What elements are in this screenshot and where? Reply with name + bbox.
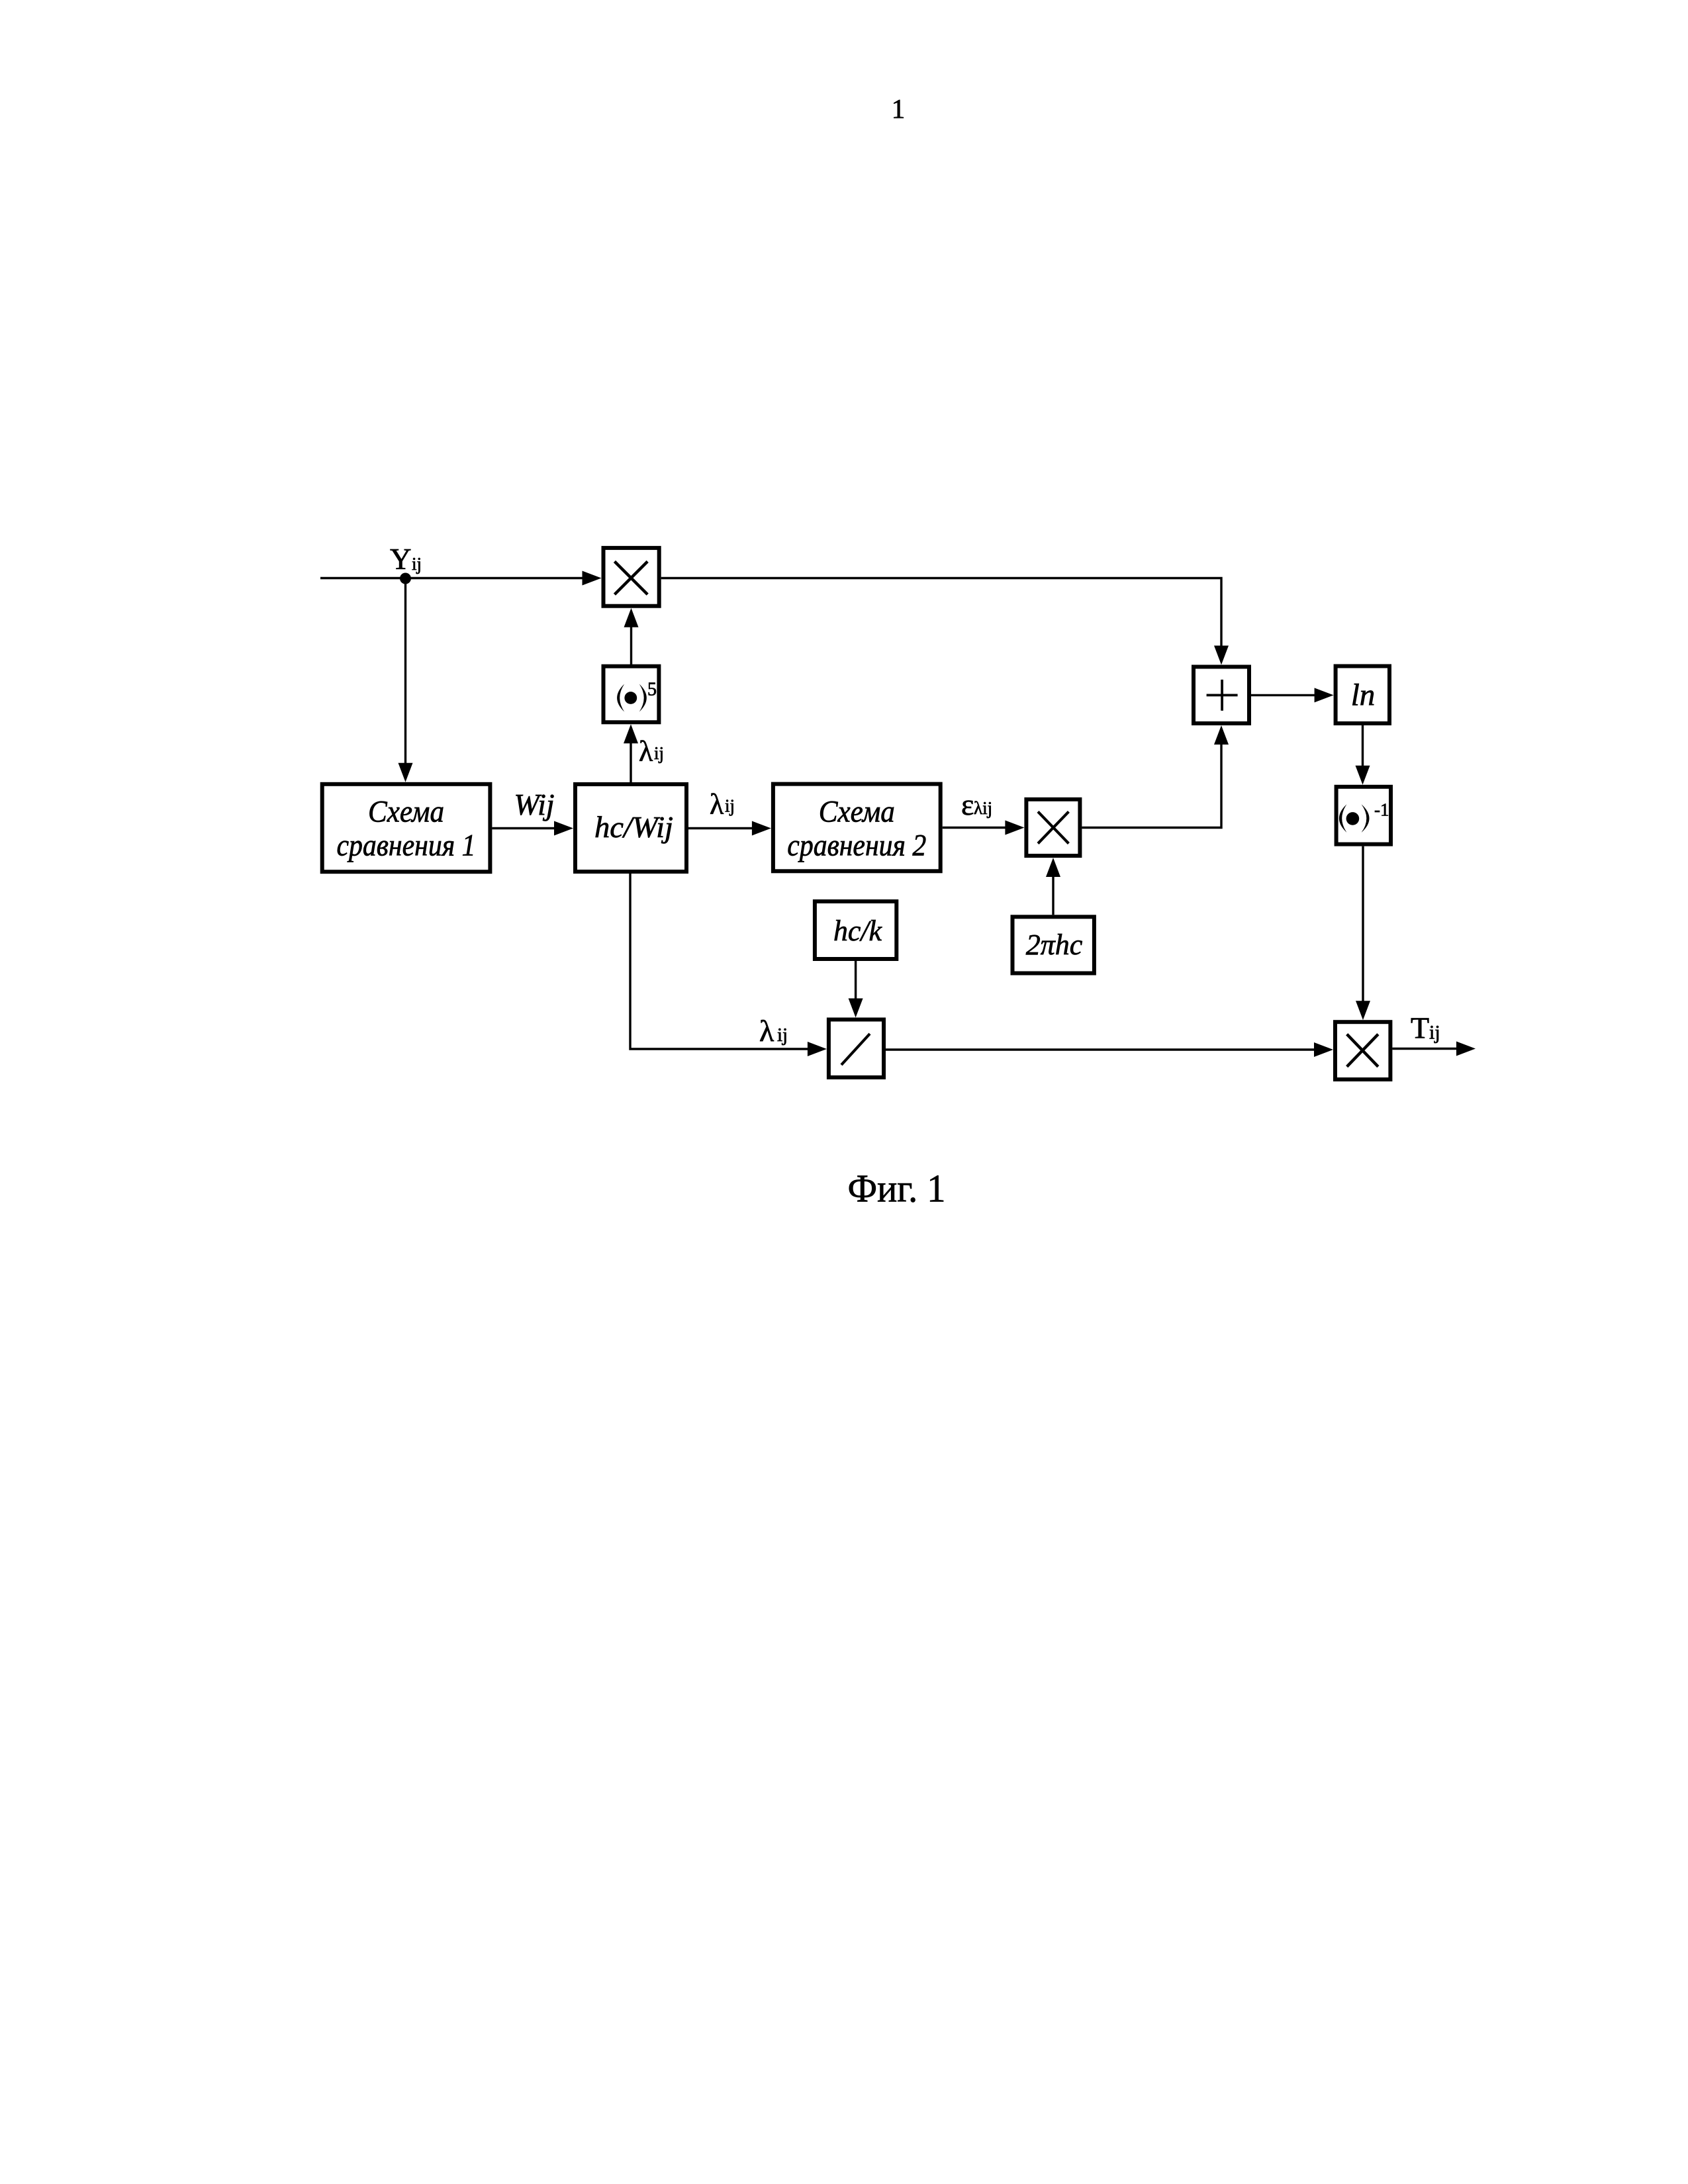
block U4 ln	[1336, 666, 1389, 724]
wire hc/k to divider D1	[849, 961, 863, 1018]
svg-text:ij: ij	[654, 743, 664, 763]
svg-text:ln: ln	[1351, 678, 1376, 712]
svg-text:λ: λ	[759, 1014, 774, 1048]
power-of-5 block P5	[604, 666, 659, 723]
svg-text:ij: ij	[777, 1024, 788, 1046]
wire U3 to multiplier M2 with epsilon label	[943, 821, 1025, 835]
block U1 comparison circuit 1	[322, 784, 491, 872]
svg-text:Схема: Схема	[819, 795, 895, 829]
wire M2 output to adder A1 (right then up)	[1082, 725, 1229, 828]
node label lambda-ij (mid)	[710, 788, 735, 821]
svg-text:-1: -1	[1374, 800, 1389, 820]
wire M3 output Tij	[1392, 1042, 1476, 1056]
block U2 hc/Wij	[575, 784, 686, 872]
svg-text:ε: ε	[961, 788, 974, 821]
divider D1	[829, 1020, 884, 1077]
wire top input to multiplier M1	[320, 571, 602, 586]
inverse block P-1	[1336, 787, 1391, 844]
caption Fig. 1	[848, 1167, 946, 1210]
wire A1 to ln block	[1251, 688, 1334, 702]
svg-text:hc/Wij: hc/Wij	[594, 811, 673, 844]
wire hc/Wij to P5 with lambda-ij label	[624, 724, 638, 782]
block U5 hc/k	[815, 901, 896, 959]
svg-text:сравнения 1: сравнения 1	[337, 829, 476, 863]
svg-text:ij: ij	[725, 796, 735, 816]
wire hc/Wij bottom to divider D1 with lambda-ij label	[630, 874, 827, 1056]
junction dot at Yij	[400, 573, 411, 584]
svg-text:Wij: Wij	[514, 788, 554, 821]
node label lambda-ij (bottom)	[759, 1014, 788, 1048]
svg-text:hc/k: hc/k	[833, 915, 882, 947]
svg-text:1: 1	[892, 93, 906, 124]
wire ln to inverse block	[1356, 725, 1370, 785]
wire U1 to hc/Wij with Wij label	[492, 821, 573, 836]
wire divider D1 to multiplier M3	[886, 1042, 1333, 1057]
svg-text:Схема: Схема	[368, 795, 444, 829]
block U3 comparison circuit 2	[773, 784, 941, 872]
svg-text:сравнения 2: сравнения 2	[787, 829, 926, 863]
multiplier M2	[1026, 799, 1080, 856]
svg-text:Y: Y	[390, 543, 412, 576]
wire inverse block to multiplier M3	[1356, 846, 1370, 1021]
svg-text:5: 5	[647, 680, 657, 700]
svg-text:λ: λ	[639, 735, 653, 768]
multiplier M1	[604, 548, 659, 606]
multiplier M3	[1335, 1022, 1390, 1079]
node label epsilon-lambda-ij	[961, 788, 992, 821]
page number 1	[892, 93, 906, 124]
wire M1 output to adder A1 (right then down)	[661, 578, 1229, 665]
svg-text:ij: ij	[1429, 1022, 1440, 1044]
wire 2pi-hc to multiplier M2	[1046, 858, 1060, 915]
block U6 2pi-hc	[1013, 917, 1094, 973]
node label Wij	[514, 788, 554, 821]
svg-text:ij: ij	[412, 554, 422, 574]
wire Yij junction down to comparison circuit 1	[399, 578, 413, 782]
svg-text:2πhc: 2πhc	[1026, 929, 1083, 961]
node label Tij	[1411, 1011, 1440, 1045]
adder A1	[1194, 667, 1249, 724]
svg-text:λ: λ	[710, 788, 724, 821]
node label lambda-ij (into P5)	[639, 735, 664, 768]
svg-text:T: T	[1411, 1011, 1429, 1045]
wire hc/Wij to comparison circuit 2 with lambda-ij label	[688, 821, 771, 836]
wire P5 to M1	[624, 608, 639, 664]
svg-text:Фиг. 1: Фиг. 1	[848, 1167, 946, 1210]
svg-text:λij: λij	[974, 798, 992, 818]
node Yij input label	[390, 543, 422, 576]
